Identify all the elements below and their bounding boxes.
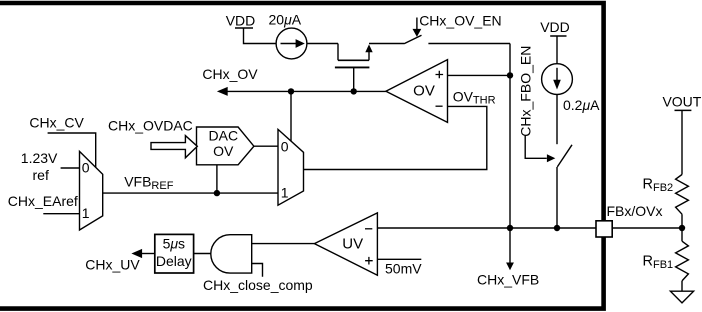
- svg-text:VDD: VDD: [540, 19, 570, 35]
- svg-text:CHx_EAref: CHx_EAref: [8, 193, 78, 209]
- wire RFB1 to ground: [681, 281, 683, 291]
- DAC OV block: [197, 127, 254, 165]
- wire VDD to current source: [244, 28, 277, 44]
- VDD rail (top-left): [226, 12, 256, 28]
- svg-text:0: 0: [82, 159, 90, 175]
- switch S2 CHx_FBO_EN: [525, 136, 572, 229]
- junction FBO/FB line: [554, 225, 560, 231]
- wire pad to divider: [612, 227, 682, 229]
- wire UV output to AND: [252, 243, 315, 245]
- mux U_M1: [80, 151, 103, 230]
- svg-text:1: 1: [82, 205, 90, 221]
- wire I2 to switch S2: [556, 95, 558, 145]
- junction CHx_OV/mux select: [288, 88, 294, 94]
- svg-text:CHx_OVDAC: CHx_OVDAC: [108, 118, 193, 134]
- svg-text:20μA: 20μA: [269, 12, 302, 28]
- svg-text:VOUT: VOUT: [662, 94, 701, 110]
- op-amp U_UV comparator: [314, 213, 377, 275]
- net VFBREF: [103, 192, 278, 194]
- wire switch down to FB line (net x=510): [509, 44, 511, 229]
- svg-text:5μs: 5μs: [163, 236, 185, 252]
- VOUT rail: [662, 94, 701, 111]
- CHx_VFB arrow: [477, 228, 539, 287]
- svg-text:CHx_CV: CHx_CV: [29, 114, 84, 130]
- svg-text:1: 1: [281, 184, 289, 200]
- wire OV- input from mux2 output: [304, 106, 487, 169]
- wire CHx_EAref to mux in1: [43, 213, 79, 215]
- wire I1 to transistor: [307, 43, 338, 45]
- junction OV+: [507, 72, 513, 78]
- svg-text:0.2μA: 0.2μA: [563, 97, 600, 113]
- svg-text:CHx_OV: CHx_OV: [202, 66, 258, 82]
- wire OV+ input: [448, 74, 511, 76]
- ground: [670, 291, 693, 303]
- svg-text:OV: OV: [213, 143, 234, 159]
- svg-text:CHx_UV: CHx_UV: [85, 257, 140, 273]
- junction VFBREF/DAC: [214, 190, 220, 196]
- wire RFB2 to tap: [681, 214, 683, 228]
- wire DAC to VFBREF net: [216, 165, 218, 193]
- transistor Q1 (pass FET): [335, 44, 404, 92]
- wire mux2 select: [290, 91, 292, 141]
- junction gate/CHx_OV: [351, 88, 357, 94]
- svg-text:Delay: Delay: [156, 253, 192, 269]
- svg-text:CHx_OV_EN: CHx_OV_EN: [419, 12, 501, 28]
- wire VDD2 to I2: [556, 36, 558, 64]
- svg-text:DAC: DAC: [209, 127, 239, 143]
- delay block 5us: [155, 234, 194, 273]
- junction FB line: [507, 225, 513, 231]
- svg-text:OV: OV: [413, 83, 435, 100]
- wire tap to RFB1: [681, 228, 683, 241]
- svg-text:0: 0: [281, 138, 289, 154]
- svg-text:ref: ref: [33, 167, 49, 183]
- wire UV+ 50mV ref: [377, 258, 421, 260]
- resistor RFB1: [643, 241, 689, 281]
- VDD rail (FBO branch): [540, 19, 570, 36]
- node CHx_OV: [202, 66, 386, 96]
- wire AND in2 CHx_close_comp: [252, 264, 263, 277]
- svg-text:UV: UV: [342, 236, 363, 253]
- pin pad FBx/OVx: [596, 221, 612, 237]
- current source I2 0.2uA: [542, 64, 601, 114]
- wire 1.23V ref to mux in0: [61, 167, 80, 169]
- svg-text:FBx/OVx: FBx/OVx: [607, 203, 663, 219]
- junction divider tap: [679, 225, 685, 231]
- switch S1 CHx_OV_EN: [404, 18, 510, 44]
- resistor RFB2: [643, 175, 689, 215]
- svg-text:CHx_VFB: CHx_VFB: [477, 271, 539, 287]
- current source I1 20uA: [269, 12, 307, 59]
- svg-text:CHx_FBO_EN: CHx_FBO_EN: [518, 46, 534, 137]
- wire delay out CHx_UV arrow: [85, 249, 155, 273]
- wire AND out to delay: [194, 253, 211, 255]
- wire VOUT to RFB2: [681, 110, 683, 174]
- op-amp U_OV comparator: [386, 60, 448, 123]
- wire UV- input (FB sense): [377, 227, 596, 229]
- block arrow CHx_OVDAC input: [151, 136, 197, 158]
- svg-text:1.23V: 1.23V: [21, 150, 58, 166]
- svg-text:CHx_close_comp: CHx_close_comp: [203, 277, 313, 293]
- wire CHx_CV select: [48, 133, 96, 168]
- wire DAC out to mux2 in0: [254, 145, 278, 147]
- svg-text:50mV: 50mV: [385, 261, 422, 277]
- svg-text:VDD: VDD: [226, 12, 256, 28]
- AND gate G1 (mirrored, points left): [211, 235, 252, 273]
- mux U_M2: [278, 129, 304, 205]
